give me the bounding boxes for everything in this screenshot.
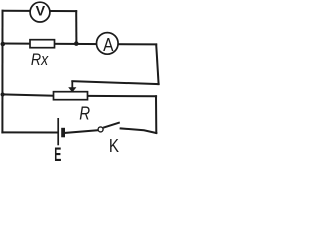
wire rheostat right <box>88 95 157 97</box>
wire voltmeter drop <box>75 11 77 43</box>
voltmeter U1 circle <box>30 2 50 22</box>
battery E plates <box>57 118 59 145</box>
wire left vertical <box>1 11 3 133</box>
switch K pivot <box>98 127 103 132</box>
resistor Rx (box) <box>30 40 55 48</box>
wire right vertical lower <box>155 96 157 133</box>
svg-text:E: E <box>54 145 61 166</box>
svg-text:A: A <box>103 35 114 55</box>
rheostat R (box) <box>54 92 88 100</box>
wire switch to right corner <box>121 128 157 133</box>
svg-text:V: V <box>36 4 46 20</box>
switch K lever <box>103 122 120 127</box>
wire battery to switch <box>65 130 98 133</box>
wire bottom left <box>2 131 57 133</box>
svg-text:Rx: Rx <box>31 51 50 69</box>
wire top (voltmeter branch top) <box>3 10 77 12</box>
node junction left-main <box>1 42 6 47</box>
wire right vertical upper <box>156 44 158 84</box>
svg-text:K: K <box>109 136 120 157</box>
ammeter A1 circle <box>97 33 119 55</box>
node junction left-rheostat <box>1 92 5 96</box>
wire rheostat left <box>2 94 53 95</box>
wire main horizontal <box>2 43 156 46</box>
node junction voltmeter-main <box>74 41 79 46</box>
wire wiper horizontal <box>72 81 158 84</box>
arrow (rheostat wiper) <box>68 81 76 92</box>
svg-text:R: R <box>79 103 90 124</box>
